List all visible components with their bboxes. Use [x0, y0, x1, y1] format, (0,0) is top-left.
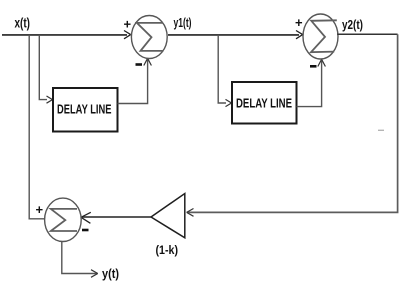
wire: main input line from left edge to summer S1 [2, 31, 131, 39]
delay line block 1 [53, 88, 118, 132]
wire: branch (x=39) down to delay line 1 input [39, 35, 52, 103]
wire: branch (x=218) down to delay line 2 input [218, 35, 231, 107]
node y(t) [102, 266, 119, 281]
gain amplifier (1-k), triangle pointing left [151, 194, 185, 238]
summer S2 (sigma) [303, 14, 338, 59]
svg-text:DELAY LINE: DELAY LINE [236, 96, 292, 111]
wire: delay line 2 output up to summer S2 minus input [297, 59, 326, 106]
svg-text:+: + [295, 15, 303, 30]
node y2(t) [342, 18, 363, 32]
S2 minus sign [310, 65, 317, 68]
wire: gain output to summer S3 minus input [81, 212, 151, 223]
S3 plus sign [36, 202, 44, 217]
summer S1 (sigma) [131, 16, 167, 59]
svg-text:y1(t): y1(t) [174, 16, 192, 30]
svg-text:y(t): y(t) [102, 266, 119, 281]
S3 minus sign [82, 229, 89, 232]
gain label (1-k) [156, 243, 179, 257]
S2 plus sign [295, 15, 303, 30]
wire: summer S3 output down and right to y(t) [62, 241, 98, 277]
wire: summer S2 output right, down the right side, and left to gain amp [187, 34, 398, 216]
node y1(t) [174, 16, 192, 30]
svg-text:+: + [124, 17, 132, 32]
delay line block 2 [232, 82, 297, 124]
svg-text:x(t): x(t) [15, 16, 31, 31]
svg-text:DELAY LINE: DELAY LINE [57, 102, 112, 117]
svg-text:+: + [36, 202, 44, 217]
wire: summer S1 output to summer S2 [168, 31, 303, 39]
stray mark near right wire [378, 129, 384, 131]
wire: delay line 1 output up to summer S1 minus input [118, 58, 152, 103]
wire: feedback branch down-left (x=29) to summer S3 [29, 35, 45, 219]
svg-text:(1-k): (1-k) [156, 243, 179, 257]
summer S3 (sigma) [45, 198, 82, 241]
node x(t) [15, 16, 31, 31]
svg-text:y2(t): y2(t) [342, 18, 363, 32]
S1 plus sign [124, 17, 132, 32]
S1 minus sign [136, 63, 143, 66]
